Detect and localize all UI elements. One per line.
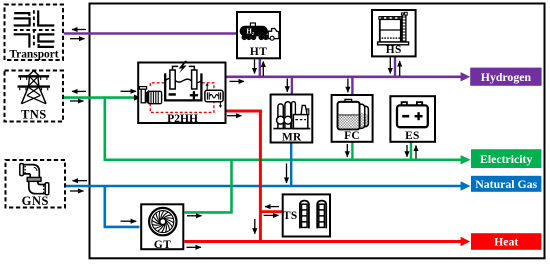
TNS source dashed box: [5, 71, 64, 122]
black arrow GNS export left: [73, 180, 88, 182]
Hydrogen output label: [470, 68, 541, 86]
black arrow HT charge down: [254, 60, 256, 74]
HS box: [372, 10, 416, 56]
black arrow P2HH heat out right: [227, 115, 242, 117]
FC box: [332, 95, 373, 142]
svg-text:P2HH: P2HH: [167, 112, 198, 125]
black arrow MR to gas bus down: [286, 164, 288, 184]
black arrow HT discharge up: [262, 62, 264, 77]
black arrow bus to FC down: [347, 79, 349, 93]
black arrow heat riser down: [254, 219, 256, 234]
HT box: [237, 12, 280, 58]
wire: green drop ES to bus: [410, 143, 412, 160]
wire: red vertical main heat riser: [259, 110, 262, 243]
GNS gas pipe icon: [20, 164, 49, 195]
svg-text:FC: FC: [344, 130, 360, 142]
GT box: [141, 204, 183, 249]
black arrow gas into GT right: [121, 220, 137, 222]
wire: green electricity main bus: [104, 159, 462, 162]
arrowhead green into Electricity label: [461, 155, 471, 164]
arrowhead blue into Natural Gas label: [461, 181, 471, 190]
wire: purple drop bus to FC: [351, 77, 353, 95]
P2HH red dashed internal circuit: [150, 83, 214, 113]
black arrow TNS import right: [70, 100, 84, 102]
TNS transmission tower icon: [18, 71, 51, 104]
arrowhead black green line into P2HH: [134, 95, 141, 101]
black arrow FC to elec bus down: [346, 144, 348, 157]
black arrow into P2HH right: [121, 90, 137, 92]
wire: red heat line P2HH to vertical: [226, 110, 262, 113]
FC fuel cell icon: [338, 99, 369, 129]
Natural Gas output label: [471, 176, 541, 192]
wire: purple hydrogen main bus: [226, 76, 461, 79]
svg-text:Hydrogen: Hydrogen: [481, 70, 532, 84]
Heat output label: [471, 233, 541, 250]
wire: purple hydrogen line Transport-HT: [64, 32, 237, 35]
P2HH hydride in arrow up: [206, 85, 208, 90]
wire: red stub to TS: [260, 210, 282, 213]
HS storage tank icon: [378, 12, 409, 45]
black arrow TS charge right: [264, 214, 279, 216]
black arrow HS discharge up: [399, 61, 401, 76]
HT hydrogen truck icon: [240, 23, 279, 40]
TS box: [283, 194, 330, 236]
GNS source dashed box: [6, 160, 66, 208]
black arrow transport export left: [72, 29, 86, 31]
svg-text:MR: MR: [282, 132, 302, 144]
Electricity output label: [471, 149, 541, 168]
Transport source dashed box: [5, 5, 64, 61]
black arrow HS charge down: [389, 58, 391, 74]
svg-text:Transport: Transport: [9, 48, 58, 60]
svg-text:HS: HS: [386, 44, 402, 56]
MR methanation plant icon: [273, 102, 310, 129]
svg-text:Electricity: Electricity: [480, 152, 533, 166]
P2HH electrode plus sign: [190, 94, 198, 96]
P2HH pump icon: [139, 87, 161, 104]
ES battery icon: [397, 102, 428, 127]
svg-text:ES: ES: [405, 130, 420, 142]
wire: purple drop HS to bus: [394, 57, 396, 77]
wire: blue drop MR to bus: [290, 144, 292, 186]
svg-text:GNS: GNS: [22, 194, 49, 208]
P2HH hydride storage icon: [205, 90, 223, 102]
wire: blue branch bus to GT: [105, 187, 140, 227]
svg-text:Heat: Heat: [494, 235, 518, 249]
black arrow TNS export left: [72, 90, 86, 92]
svg-text:GT: GT: [154, 239, 171, 251]
P2HH electrode minus sign: [169, 93, 176, 96]
TS thermal storage tanks icon: [300, 201, 326, 229]
black arrow transport import right: [70, 38, 85, 40]
P2HH lightning bolt: [179, 61, 187, 73]
wire: green TNS feed line: [64, 96, 135, 99]
black arrow GNS import right: [70, 190, 84, 192]
outer system boundary frame: [90, 4, 545, 259]
P2HH hydride out arrow down: [219, 102, 221, 106]
black arrow ES discharge up: [415, 146, 417, 159]
GT gas turbine icon: [149, 208, 176, 235]
wire: green vertical TNS junction down to bus: [104, 96, 107, 161]
svg-text:Natural Gas: Natural Gas: [475, 177, 537, 191]
ES box: [390, 96, 435, 142]
svg-text:TNS: TNS: [21, 108, 47, 122]
arrowhead red into Heat label: [461, 237, 471, 246]
P2HH converter box: [138, 63, 225, 124]
black arrow P2HH hydrogen out right: [230, 80, 245, 82]
wire: green GT output up to bus (over blue): [185, 161, 232, 213]
wire: purple drop bus to MR: [291, 77, 293, 94]
P2HH electrolyzer tank icon: [165, 66, 201, 100]
black arrow TS discharge left: [265, 206, 279, 208]
black arrow bus to MR down: [286, 79, 288, 92]
wire: blue natural gas main bus: [66, 185, 462, 188]
wire: green drop FC to bus: [351, 142, 353, 159]
black arrow ES charge down: [406, 145, 408, 157]
wire: red bottom heat bus from GT: [185, 240, 462, 243]
Transport crossroad icon: [14, 10, 55, 47]
svg-text:TS: TS: [283, 210, 298, 222]
black arrow GT elec out right: [187, 215, 202, 217]
wire: purple drop HT to bus: [259, 59, 261, 77]
MR box: [271, 95, 313, 143]
svg-text:HT: HT: [250, 46, 267, 58]
black arrow GT heat out right: [187, 246, 202, 248]
arrowhead purple into Hydrogen label: [461, 72, 471, 81]
